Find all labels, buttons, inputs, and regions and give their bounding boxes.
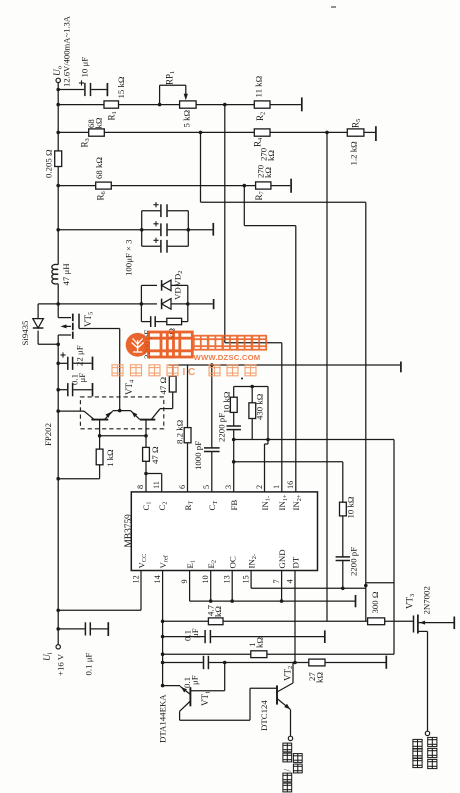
wire (264, 444, 266, 492)
node FB (232, 460, 236, 464)
cjk glyph (131, 365, 142, 376)
svg-text:/: / (282, 769, 292, 772)
svg-text:OC: OC (228, 556, 238, 568)
diode Si9435 (33, 319, 44, 328)
svg-text:300 Ω: 300 Ω (370, 591, 380, 613)
node VD right (186, 302, 190, 306)
ground (92, 357, 94, 370)
wire (91, 89, 106, 91)
wire (111, 185, 255, 187)
VT3 arrow (420, 621, 426, 625)
node on rail (56, 103, 60, 107)
wire (201, 201, 366, 203)
cjk glyph (428, 759, 437, 768)
svg-text:16: 16 (286, 481, 295, 489)
resistor 8.2k RT (187, 365, 189, 428)
wire (57, 335, 59, 645)
wire (187, 285, 189, 304)
diode Si9435 bypass (38, 303, 58, 305)
polarity plus (153, 204, 158, 206)
svg-text:1.2 kΩ: 1.2 kΩ (349, 141, 359, 166)
transistor FP202 right half (131, 411, 140, 420)
polarity plus (153, 239, 158, 241)
resistor body (143, 447, 150, 461)
cjk glyph (252, 336, 266, 350)
resistor 1k snubber (167, 318, 182, 324)
node on rail (56, 343, 60, 347)
wire (277, 699, 290, 710)
node VD left (140, 302, 144, 306)
svg-text:R4: R4 (253, 137, 265, 147)
node on rail (56, 609, 60, 613)
wire (281, 343, 283, 492)
wire divider top bus (234, 386, 268, 388)
svg-text:R7: R7 (254, 190, 266, 200)
wire (145, 461, 147, 492)
resistor body (184, 428, 191, 443)
svg-text:2200 pF: 2200 pF (349, 547, 359, 576)
wiper arrow (184, 94, 188, 101)
svg-text:Si9435: Si9435 (20, 320, 30, 346)
watermark slogan (112, 365, 123, 376)
wire (104, 131, 254, 133)
wire DT row (163, 662, 203, 664)
bank right bus (187, 211, 189, 247)
wire (365, 202, 367, 621)
capacitor 1000pF CT (210, 363, 214, 367)
wire (190, 600, 355, 602)
diode VD1 (162, 280, 171, 291)
svg-text:430 kΩ: 430 kΩ (255, 393, 265, 420)
svg-text:kΩ: kΩ (213, 606, 223, 617)
wire (250, 687, 276, 689)
svg-text:13: 13 (223, 575, 232, 583)
node 430k top (250, 385, 254, 389)
node on rail (56, 627, 60, 631)
capacitor bank 100uF x3 (58, 229, 142, 231)
wire (290, 709, 292, 736)
wire (38, 343, 58, 345)
cjk glyph (167, 365, 178, 376)
cjk glyph (413, 749, 422, 758)
resistor 1k base (99, 436, 101, 449)
wire (119, 329, 121, 411)
node on rail (56, 388, 60, 392)
snubber 2200pF + 1k (140, 304, 142, 322)
node FB top (232, 438, 236, 442)
wire (160, 84, 186, 86)
svg-text:9: 9 (180, 579, 189, 583)
cjk glyph (223, 336, 237, 350)
svg-text:5: 5 (202, 485, 211, 489)
resistor 47 ohm gate drive (172, 392, 174, 409)
wire R1 row (58, 104, 104, 106)
svg-text:8: 8 (136, 485, 145, 489)
cjk glyph (283, 783, 292, 792)
inductor 47uH coil (52, 264, 58, 284)
capacitor plates (67, 357, 69, 370)
wire (210, 571, 212, 602)
cjk glyph (149, 365, 160, 376)
svg-text:kΩ: kΩ (315, 672, 325, 683)
FP202 right emitter arrow (132, 412, 138, 418)
wire (141, 303, 157, 305)
stray mark (241, 378, 243, 380)
svg-text:FP202: FP202 (43, 423, 53, 446)
stray speck (331, 6, 336, 8)
node R3-R4 (199, 131, 203, 135)
wire node R3-R4 jog to lower net (200, 132, 202, 202)
wire (161, 474, 163, 492)
svg-text:kΩ: kΩ (263, 167, 273, 178)
resistor R2 11k (254, 101, 270, 108)
polarity plus (79, 82, 84, 84)
terminal U0 output (56, 78, 60, 82)
wire (342, 516, 344, 557)
node pin8-11 (144, 472, 148, 476)
svg-text:R3: R3 (80, 138, 92, 147)
svg-text:VT2: VT2 (283, 666, 295, 681)
cjk glyph (293, 764, 302, 773)
resistor 0.205 ohm current sense (55, 151, 62, 167)
wire (119, 104, 180, 106)
svg-text:68 kΩ: 68 kΩ (94, 157, 104, 179)
wire IN2- row (250, 571, 252, 589)
capacitor 10uF electrolytic (58, 89, 84, 91)
svg-text:10 kΩ: 10 kΩ (222, 391, 232, 413)
node wiper tap (158, 103, 162, 107)
svg-text:47 Ω: 47 Ω (150, 446, 160, 464)
VT1 emitter arrow (181, 687, 187, 693)
capacitor plates (204, 630, 206, 643)
cjk glyph (428, 748, 437, 757)
wire (65, 325, 72, 327)
transistor VT3 2N7002 switch (413, 616, 415, 633)
resistor 47 ohm to pin8 (145, 436, 147, 448)
wire (57, 284, 59, 318)
ground bar emitters (355, 595, 357, 607)
wire (179, 711, 181, 720)
wire VT5 gate (79, 328, 120, 330)
wire (113, 410, 131, 412)
wire (364, 131, 375, 133)
node on rail (56, 477, 60, 481)
node on rail (56, 409, 60, 413)
svg-text:6: 6 (178, 485, 187, 489)
label output on/off control (283, 743, 292, 752)
wire IN1- jog (267, 440, 269, 445)
resistor R6 68k (96, 182, 112, 189)
svg-text:10: 10 (201, 575, 210, 583)
capacitor plates (84, 622, 86, 635)
resistor 10k divider (233, 387, 235, 398)
node IN1- branch (266, 438, 270, 442)
wire (168, 210, 189, 212)
wire Vcc pin12 to rail (140, 571, 142, 611)
terminal on/off control (288, 736, 292, 740)
cjk glyph (227, 365, 238, 376)
wire (385, 620, 413, 622)
VT1 base lead (190, 690, 224, 692)
cjk glyph (283, 773, 292, 782)
svg-text:μF: μF (77, 373, 87, 383)
resistor R7 270k (256, 182, 271, 189)
wire (73, 389, 91, 391)
wire (57, 83, 59, 265)
wire (182, 321, 188, 323)
svg-text:VT3: VT3 (405, 594, 417, 609)
wire (37, 304, 39, 318)
wire E1 E2 OC GND common to ground (189, 571, 191, 602)
resistor body (96, 449, 103, 465)
wire (187, 304, 189, 322)
wire (151, 409, 160, 420)
svg-text:DTC124: DTC124 (259, 700, 269, 731)
polarity plus (153, 223, 158, 225)
junction (140, 228, 144, 232)
resistor 300 ohm (368, 618, 385, 625)
wire (270, 131, 347, 133)
VT1 collector (180, 701, 191, 711)
svg-text:12.6V/400mA~1.3A: 12.6V/400mA~1.3A (62, 15, 72, 87)
svg-text:1: 1 (272, 485, 281, 489)
svg-text:FB: FB (229, 500, 239, 511)
wire (233, 412, 235, 426)
ground bar R2 (301, 97, 303, 111)
cjk glyph (167, 332, 192, 357)
wire (281, 571, 283, 602)
VT2 emitter arrow (284, 704, 290, 710)
svg-text:DT: DT (290, 556, 300, 568)
wire (244, 225, 295, 227)
wire FB to 10k/2200pF sense (234, 461, 343, 463)
FP202 left base lead (99, 420, 101, 436)
wire (180, 686, 190, 694)
svg-text:10 μF: 10 μF (80, 57, 90, 78)
svg-text:100μF × 3: 100μF × 3 (124, 239, 134, 276)
wire VD row (58, 303, 141, 305)
wire node R5 down to 300 ohm row (326, 132, 328, 621)
wire (188, 229, 212, 231)
resistor body (251, 651, 267, 658)
resistor R3 68k (89, 129, 105, 136)
svg-text:R2: R2 (255, 112, 267, 121)
svg-text:kΩ: kΩ (94, 117, 104, 128)
junction (230, 599, 234, 603)
node on Vref line (161, 620, 165, 624)
capacitor plates (67, 383, 69, 396)
wire (224, 663, 226, 691)
transistor FP202 left half (84, 411, 94, 419)
wire (270, 104, 301, 106)
potentiometer RP1 5k (180, 101, 197, 108)
node DT VT2 (293, 661, 297, 665)
wire (141, 284, 157, 286)
node jog line (364, 584, 368, 588)
wire R6 row (58, 185, 95, 187)
wire (249, 688, 251, 720)
wire (73, 362, 91, 364)
wire (160, 408, 173, 410)
wire (141, 321, 150, 323)
svg-text:3: 3 (224, 485, 233, 489)
wire (211, 636, 324, 638)
wire (295, 226, 297, 492)
wire (163, 685, 181, 687)
capacitor plates (84, 83, 86, 96)
wire (211, 452, 213, 492)
svg-text:4: 4 (285, 579, 294, 583)
wire R3 row (58, 131, 88, 133)
transistor VT5 MOSFET pass switch (58, 317, 71, 319)
wire (58, 609, 141, 611)
wire (142, 210, 161, 212)
svg-text:Ui: Ui (43, 652, 54, 661)
resistor 4.7k (208, 618, 223, 625)
watermark logo disc (112, 332, 266, 378)
svg-text:R5: R5 (351, 119, 363, 128)
svg-text:1000 pF: 1000 pF (193, 441, 203, 470)
junction (98, 434, 102, 438)
ground bar right (400, 362, 402, 373)
resistor 430k (251, 387, 253, 403)
wire (342, 561, 344, 589)
ground bar cap bank (212, 223, 214, 236)
node VT1 base (223, 661, 227, 665)
wire (172, 365, 174, 376)
capacitor 0.1uF Vref bypass (163, 636, 205, 638)
capacitor plates (160, 240, 162, 253)
wire (58, 334, 71, 336)
svg-text:I C: I C (183, 367, 196, 378)
wire (292, 663, 294, 684)
polarity plus (60, 354, 65, 356)
ground bar 0.1uF (324, 630, 326, 643)
svg-text:VT5: VT5 (83, 312, 95, 327)
FP202 right base lead (145, 420, 147, 436)
wire (342, 462, 344, 502)
ground (106, 83, 108, 96)
svg-text:+16 V: +16 V (56, 653, 66, 676)
svg-text:47 μH: 47 μH (61, 263, 71, 286)
wire (168, 245, 189, 247)
wire IN1- long branch (268, 439, 394, 441)
cjk glyph (293, 754, 302, 763)
svg-text:5 kΩ: 5 kΩ (182, 110, 192, 128)
cjk glyph (413, 739, 422, 748)
capacitor plates (160, 223, 162, 236)
wire (142, 229, 161, 231)
wire (105, 411, 113, 419)
svg-text:WWW.DZSC.COM: WWW.DZSC.COM (194, 353, 261, 362)
junction (144, 434, 148, 438)
svg-text:μF: μF (190, 675, 200, 685)
svg-text:2200 pF: 2200 pF (217, 413, 227, 442)
svg-text:11 kΩ: 11 kΩ (254, 75, 264, 97)
wire (267, 653, 394, 655)
svg-text:R6: R6 (96, 190, 108, 200)
wire (325, 662, 386, 664)
wire (233, 430, 235, 492)
capacitor 0.1uF DT (203, 656, 205, 669)
transistor VT1 DTA144EKA (189, 687, 191, 706)
capacitor 0.1uF input (58, 628, 84, 630)
wire (146, 473, 162, 475)
ground (92, 383, 94, 396)
wire FB top row (234, 439, 268, 441)
svg-text:RP1: RP1 (165, 71, 177, 85)
capacitor 2200pF divider (227, 425, 241, 427)
ground bar VT3 (453, 617, 455, 630)
junction (209, 599, 213, 603)
cjk glyph (238, 336, 252, 350)
wire (196, 104, 254, 106)
capacitor 0.1uF rail (58, 389, 67, 391)
svg-text:2N7002: 2N7002 (422, 586, 432, 614)
wire (225, 342, 282, 344)
resistor 27k (309, 659, 325, 666)
wire RP1 wiper (159, 85, 161, 104)
wire (91, 628, 108, 630)
cjk glyph (209, 365, 220, 376)
wire (187, 443, 189, 492)
svg-text:7: 7 (272, 579, 281, 583)
svg-text:22 μF: 22 μF (75, 345, 85, 366)
capacitor 22uF (58, 362, 67, 364)
ground bar 27k (385, 656, 387, 669)
label output current switch (428, 737, 437, 746)
svg-text:kΩ: kΩ (255, 637, 265, 648)
svg-text:15: 15 (242, 575, 251, 583)
svg-text:VT1: VT1 (200, 691, 212, 706)
svg-text:10 kΩ: 10 kΩ (346, 496, 356, 518)
svg-text:2: 2 (255, 485, 264, 489)
junction (280, 599, 284, 603)
cjk glyph (194, 336, 208, 350)
node IN2- row (341, 587, 345, 591)
wire (156, 321, 167, 323)
wire (185, 85, 187, 97)
wire (171, 284, 188, 286)
wire (188, 303, 213, 305)
node on rail (56, 184, 60, 188)
resistor R1 15k (104, 101, 119, 108)
wire soft-start row (163, 620, 209, 622)
ground bar VD (213, 299, 215, 309)
svg-text:VT4: VT4 (124, 379, 136, 395)
node to IN1+ (223, 103, 227, 107)
node VT5 gate drive (118, 409, 122, 413)
svg-text:μF: μF (190, 628, 200, 638)
transistor VT2 DTC124 (276, 685, 278, 704)
wire base bus (100, 435, 146, 437)
wire link (366, 582, 394, 584)
svg-text:12: 12 (131, 575, 140, 583)
svg-text:1 kΩ: 1 kΩ (105, 449, 115, 467)
resistor 1k pull (163, 653, 251, 655)
wire (271, 185, 290, 187)
svg-text:0.205 Ω: 0.205 Ω (44, 149, 54, 178)
svg-text:11: 11 (152, 481, 161, 489)
wire (209, 662, 309, 664)
wire (58, 478, 99, 480)
node on Vref line (161, 652, 165, 656)
bank left bus (141, 211, 143, 247)
node on Vref line (161, 635, 165, 639)
capacitor plates (204, 447, 220, 449)
capacitor plates (160, 204, 162, 217)
diode VD2 (162, 299, 171, 310)
